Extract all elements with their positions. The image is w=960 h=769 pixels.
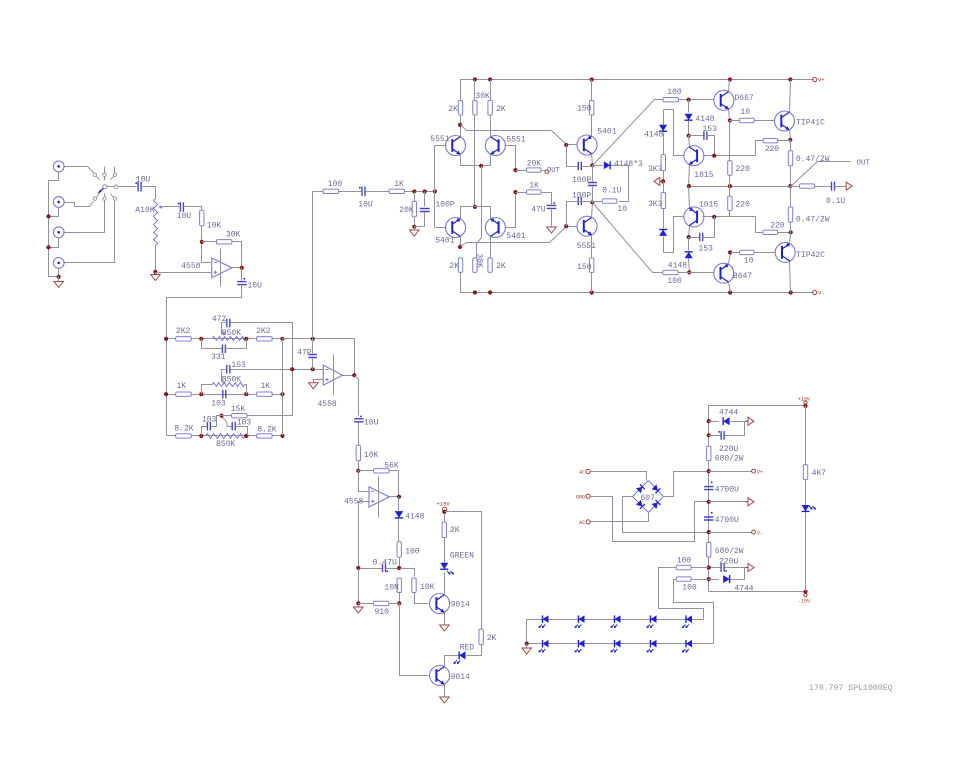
wire C3 to EQ bus bbox=[167, 285, 242, 436]
svg-text:RED: RED bbox=[460, 643, 475, 652]
svg-text:4148: 4148 bbox=[405, 513, 424, 522]
wire 20K to ground bbox=[414, 217, 416, 227]
wire 10N to 910 row bbox=[399, 593, 401, 604]
transistor Q9 1015 bbox=[684, 207, 704, 227]
wire left column to 910 bbox=[358, 569, 360, 604]
junction 30K-emitters2 bbox=[473, 205, 477, 209]
wire EQ row2 bbox=[167, 394, 283, 396]
terminal V- bottom bbox=[813, 290, 817, 294]
wire Q8 emitter down bbox=[689, 165, 690, 187]
junction 910 left bbox=[356, 601, 360, 605]
junction wiper W3 bbox=[219, 414, 223, 418]
junction V- node bbox=[707, 530, 711, 534]
junction 153-busR2 bbox=[290, 367, 294, 371]
svg-text:30K: 30K bbox=[226, 231, 241, 240]
resistor R26 150 bbox=[591, 80, 593, 101]
resistor R30 150 bottom bbox=[591, 273, 593, 293]
wire Q7 emitter to 10 bbox=[729, 110, 730, 121]
svg-text:220: 220 bbox=[770, 222, 785, 231]
left bias column link top bbox=[664, 110, 684, 156]
ground input network bbox=[414, 227, 416, 231]
LED D23 row2 bbox=[651, 640, 657, 648]
wire 10 to node2 bbox=[593, 201, 603, 203]
VR2 wiper arrow bbox=[222, 381, 225, 384]
wire node2 diagonal to bottom 100 bbox=[593, 203, 663, 273]
svg-text:0.1U: 0.1U bbox=[602, 187, 621, 196]
junction +15V bbox=[803, 404, 807, 408]
input jack J3 bbox=[53, 227, 64, 238]
diode D4 4148 bottom bias bbox=[688, 238, 690, 251]
junction row2 node C bbox=[280, 392, 284, 396]
transistor Q1 5551 bbox=[446, 136, 466, 156]
wire 30K to output bbox=[233, 242, 242, 268]
svg-text:OUT: OUT bbox=[547, 167, 560, 175]
wire Q11 emitter up bbox=[729, 253, 731, 265]
wire PSU bottom rail bbox=[709, 591, 806, 593]
svg-text:10: 10 bbox=[744, 257, 754, 266]
wire amp output row bbox=[689, 186, 791, 188]
svg-text:5551: 5551 bbox=[577, 242, 596, 251]
resistor R27 2K bottom bbox=[458, 258, 462, 273]
capacitor C13 10N bbox=[397, 578, 401, 593]
capacitor C32 4700U bottom bbox=[704, 517, 714, 520]
junction col 220U row bottom bbox=[707, 565, 711, 569]
wire PSU column bbox=[708, 406, 710, 592]
svg-text:-15V: -15V bbox=[798, 598, 810, 604]
resistor R38 220 mid upper bbox=[729, 121, 731, 161]
ground arrow 220U bottom bbox=[745, 567, 747, 569]
svg-text:5401: 5401 bbox=[597, 128, 616, 137]
svg-text:10U: 10U bbox=[358, 200, 373, 209]
wire C20 to 1K bbox=[366, 191, 389, 193]
transistor Q5 5401 mirrored bbox=[485, 218, 505, 238]
wire EQ-out bus up to power amp bbox=[312, 192, 314, 339]
svg-text:10K: 10K bbox=[364, 451, 379, 460]
wire TIP41C collector to rail bbox=[790, 80, 791, 113]
resistor R5 2K2 right bbox=[257, 337, 273, 341]
junction 910 right bbox=[397, 601, 401, 605]
bias column bottom 4148 bbox=[663, 209, 665, 229]
svg-text:150: 150 bbox=[577, 263, 592, 272]
wire Q1/Q2 emitters bbox=[461, 155, 491, 166]
svg-text:2K: 2K bbox=[496, 262, 506, 271]
svg-text:220: 220 bbox=[765, 145, 780, 154]
bridge diode bottom-right bbox=[652, 500, 661, 509]
junction 0.47U left bbox=[356, 566, 360, 570]
svg-text:V+: V+ bbox=[818, 77, 825, 84]
wire Q1 collector bbox=[460, 115, 462, 137]
svg-text:680/2W: 680/2W bbox=[715, 547, 744, 556]
svg-text:A10K: A10K bbox=[135, 206, 154, 215]
ground 910 row bbox=[358, 604, 360, 607]
wire 4744 to node bbox=[731, 421, 745, 423]
selector SW1 contact stubs toward pivot bbox=[97, 177, 100, 180]
junction input-100P bbox=[423, 189, 427, 193]
resistor R22 20K input bbox=[414, 192, 416, 202]
junction row2 left bus bbox=[164, 392, 168, 396]
bridge rectifier 607 bbox=[633, 481, 664, 513]
ground U1B + input bbox=[314, 380, 324, 383]
wire C2 to R2 10K bbox=[184, 207, 202, 211]
capacitor C28 153 bottom bbox=[689, 237, 700, 239]
capacitor C22 47U bbox=[542, 193, 552, 205]
junction Q11-10row bbox=[728, 250, 732, 254]
junction -15V bbox=[803, 590, 807, 594]
wire Q12 collector to GREEN LED bbox=[444, 573, 446, 595]
wire input node to Q1 base bbox=[434, 146, 436, 228]
wire jack3 stem bbox=[49, 238, 59, 248]
transistor Q3 5401 VAS bbox=[577, 135, 597, 155]
capacitor C10 47P bbox=[312, 339, 314, 354]
svg-text:GREEN: GREEN bbox=[450, 551, 474, 560]
wire node1 diagonal to top 100 bbox=[593, 100, 663, 166]
svg-text:153: 153 bbox=[703, 125, 718, 134]
svg-text:AC: AC bbox=[579, 520, 585, 526]
junction col 4744 row bottom bbox=[707, 577, 711, 581]
junction row3 node B bbox=[244, 434, 248, 438]
wire 10K to node bbox=[358, 461, 360, 471]
wire 4148 to Q11 base row bbox=[689, 259, 690, 273]
wire 472 to bus R2 bbox=[231, 323, 293, 416]
junction col diode row bbox=[707, 419, 711, 423]
svg-text:103: 103 bbox=[237, 419, 252, 428]
diode D2 4148*3 bbox=[593, 165, 603, 167]
capacitor C30 220U top bbox=[709, 435, 721, 437]
svg-text:910: 910 bbox=[375, 608, 390, 617]
potentiometer VR3 B50K band3 bbox=[206, 434, 246, 439]
svg-text:10U: 10U bbox=[364, 418, 379, 427]
junction railB 2K bbox=[488, 290, 492, 294]
capacitor C31 4700U top bbox=[704, 487, 714, 490]
wire Q13 base bbox=[400, 604, 429, 676]
wire RED LED to Q13 collector bbox=[445, 656, 459, 667]
svg-text:4700U: 4700U bbox=[715, 516, 739, 525]
svg-text:100: 100 bbox=[682, 583, 697, 592]
resistor R41 220 lower bbox=[756, 217, 763, 233]
svg-text:8.2K: 8.2K bbox=[257, 426, 276, 435]
wire 100 to Q7 base bbox=[679, 99, 714, 101]
wire U2A output bbox=[390, 496, 399, 498]
svg-text:9014: 9014 bbox=[451, 673, 470, 682]
selector switch SW1 contacts bottom bbox=[93, 197, 96, 200]
selector SW1 output contact bbox=[115, 185, 118, 188]
wire TIP42C collector down bbox=[790, 262, 791, 293]
svg-text:100: 100 bbox=[405, 548, 420, 557]
junction row2 node B bbox=[244, 392, 248, 396]
capacitor C26 153 top bbox=[689, 135, 704, 137]
terminal +15V psu bbox=[804, 401, 807, 404]
svg-text:100P: 100P bbox=[436, 201, 455, 210]
transistor Q13 9014 bbox=[430, 665, 450, 685]
wire to output node bbox=[790, 166, 792, 187]
svg-text:5401: 5401 bbox=[435, 236, 454, 245]
wire EQ out to amp input bbox=[313, 191, 323, 193]
svg-text:9014: 9014 bbox=[451, 601, 470, 610]
wire 10K to inverting node bbox=[202, 226, 212, 263]
svg-text:4744: 4744 bbox=[719, 409, 738, 418]
resistor R4 2K2 left bbox=[176, 337, 192, 341]
junction Q9 collector bbox=[687, 235, 691, 239]
wire jack2 to selector bbox=[65, 202, 94, 207]
terminal V+ top bbox=[813, 77, 817, 81]
wire bridge+ to V+ node bbox=[664, 472, 709, 497]
resistor R21 1K bbox=[389, 189, 405, 193]
wire Q4 tap to Q6 base bbox=[461, 227, 578, 247]
capacitor C6 103 in row bbox=[223, 390, 226, 399]
diode D1 4148 bbox=[398, 497, 400, 511]
resistor R8 8.2K left bbox=[176, 434, 192, 438]
resistor R13 100 bbox=[398, 519, 400, 542]
svg-text:2K2: 2K2 bbox=[176, 327, 191, 336]
wire Q8 base right bbox=[703, 155, 756, 157]
transistor Q8 1815 bbox=[684, 146, 704, 166]
resistor R36 220 upper bbox=[756, 141, 763, 156]
svg-text:TIP41C: TIP41C bbox=[796, 119, 825, 128]
resistor R24 30K bbox=[474, 80, 476, 101]
resistor R31 20K feedback bbox=[516, 170, 527, 172]
svg-text:AC: AC bbox=[579, 470, 585, 476]
svg-text:4K7: 4K7 bbox=[812, 469, 827, 478]
svg-text:5401: 5401 bbox=[506, 232, 525, 241]
capacitor C7 153 bbox=[227, 365, 230, 374]
ground arrow mid rail bbox=[709, 501, 747, 503]
LED D10 row1 bbox=[543, 615, 549, 623]
resistor R35 10 bbox=[730, 120, 740, 122]
svg-text:30K: 30K bbox=[475, 254, 484, 269]
junction row1 left bus bbox=[164, 337, 168, 341]
wire LED array left link bbox=[526, 620, 528, 644]
svg-text:10U: 10U bbox=[248, 282, 263, 291]
wire +15V to 2K red branch bbox=[445, 512, 482, 630]
junction TIP41C emitter bbox=[788, 138, 792, 142]
diode D3 4148 top bias bbox=[688, 100, 690, 113]
bridge diode bottom-left bbox=[636, 500, 645, 509]
capacitor C23 100P col bbox=[592, 166, 594, 182]
svg-text:20K: 20K bbox=[399, 206, 414, 215]
wire wiper to C2 bbox=[163, 206, 180, 208]
junction node2 bbox=[590, 200, 594, 204]
svg-text:D667: D667 bbox=[735, 94, 754, 103]
wire VR2 wiper to 153 bbox=[222, 370, 226, 382]
svg-text:680/2W: 680/2W bbox=[715, 455, 744, 464]
wire Q9 collector down bbox=[689, 227, 690, 238]
svg-text:15K: 15K bbox=[231, 405, 246, 414]
junction output node bbox=[788, 184, 792, 188]
wire AC2 to bridge bbox=[591, 513, 649, 522]
wire 10 to TIP41C base bbox=[755, 120, 775, 122]
svg-text:4148: 4148 bbox=[644, 131, 663, 140]
LED D20 row2 bbox=[543, 640, 549, 648]
junction railB 150 bbox=[590, 290, 594, 294]
terminal arrow output bbox=[846, 182, 852, 190]
svg-text:3K3: 3K3 bbox=[648, 200, 663, 209]
resistor R33 10 bbox=[602, 199, 617, 203]
wire Q8 collector up bbox=[689, 136, 690, 147]
wire jack3 to selector bbox=[65, 201, 105, 233]
wire 100b to LED row2 bbox=[674, 580, 714, 644]
selector SW1 rotor arm bbox=[98, 188, 103, 193]
svg-text:10: 10 bbox=[617, 205, 627, 214]
LED D21 row2 bbox=[579, 640, 585, 648]
wire jack1 to selector bbox=[65, 167, 94, 173]
wire V- terminal bbox=[709, 532, 752, 534]
svg-text:5551: 5551 bbox=[506, 136, 525, 145]
resistor R29 2K bottom right bbox=[488, 258, 492, 273]
wire GREEN to 2K bbox=[444, 538, 446, 563]
svg-text:1815: 1815 bbox=[694, 171, 713, 180]
resistor R43 100 bottom bbox=[663, 270, 679, 274]
wire Q6 collector to node2 bbox=[592, 203, 593, 218]
LED D12 row1 bbox=[615, 615, 621, 623]
svg-text:100: 100 bbox=[667, 277, 682, 286]
resistor R3 30K feedback bbox=[202, 241, 217, 243]
resistor R6 1K left bbox=[176, 392, 192, 396]
svg-text:2K: 2K bbox=[449, 262, 459, 271]
resistor R39 220 mid lower bbox=[729, 187, 731, 197]
wire 100a to LED row1 bbox=[659, 568, 704, 620]
junction bias top bbox=[687, 98, 691, 102]
ground Q13 emitter bbox=[444, 685, 446, 697]
svg-text:607: 607 bbox=[641, 494, 656, 503]
junction rail TIP41C bbox=[788, 77, 792, 81]
capacitor C20 10U bbox=[362, 187, 365, 197]
terminal +15V bbox=[443, 507, 447, 511]
capacitor C9 103 right bbox=[227, 426, 233, 428]
svg-text:331: 331 bbox=[211, 353, 226, 362]
svg-text:B50K: B50K bbox=[216, 440, 235, 449]
LED power indicator bbox=[802, 505, 810, 511]
wire diff tail link bbox=[477, 166, 482, 258]
LED D24 row2 bbox=[686, 640, 692, 648]
junction node1 bbox=[590, 163, 594, 167]
wire TIP42C emitter up bbox=[790, 233, 791, 244]
resistor R10 8.2K right bbox=[257, 434, 273, 438]
wire 10 to TIP42C base bbox=[755, 252, 776, 254]
wire EQ row3 bbox=[167, 435, 283, 437]
svg-text:1015: 1015 bbox=[699, 201, 718, 210]
wire 10K to Q12 base bbox=[415, 593, 429, 604]
capacitor C25 100P lower bbox=[567, 202, 583, 227]
svg-text:8.2K: 8.2K bbox=[174, 425, 193, 434]
junction Q8 base-153 bbox=[712, 154, 716, 158]
svg-text:2K2: 2K2 bbox=[256, 327, 271, 336]
junction rail Q7 bbox=[728, 77, 732, 81]
wire U1A output bbox=[232, 267, 242, 269]
svg-text:47P: 47P bbox=[297, 349, 312, 358]
svg-text:1K: 1K bbox=[177, 382, 187, 391]
junction U2A out bbox=[397, 495, 401, 499]
wire EQ row1 bbox=[167, 338, 283, 340]
wire C11 to detector bbox=[358, 423, 360, 446]
VR3 wiper bbox=[222, 416, 228, 426]
wire U1B output bbox=[343, 375, 355, 377]
junction 56K node bbox=[356, 469, 360, 473]
svg-text:0.47/2W: 0.47/2W bbox=[796, 216, 830, 225]
resistor R25 2K bbox=[490, 80, 492, 101]
svg-text:100: 100 bbox=[328, 180, 343, 189]
wire 30K column bbox=[474, 115, 476, 207]
junction row1 node B bbox=[244, 337, 248, 341]
junction row3 node A bbox=[199, 434, 203, 438]
resistor R7 1K right bbox=[257, 392, 273, 396]
selector SW1 NC stubs bbox=[104, 167, 106, 173]
svg-text:20K: 20K bbox=[527, 160, 542, 169]
capacitor C24 100P upper bbox=[567, 145, 578, 167]
wire Q3 emitter to 150 bbox=[591, 115, 593, 137]
resistor R16 2K bbox=[442, 522, 446, 538]
junction 20K gnd bbox=[412, 225, 416, 229]
left bias column link bottom bbox=[664, 217, 684, 253]
resistor R51 100 b bbox=[692, 579, 709, 581]
wire 100 to Q11 base bbox=[679, 272, 714, 274]
transistor Q14 TIP42C bbox=[775, 242, 795, 262]
transistor Q10 TIP41C bbox=[775, 111, 795, 131]
wire A10K bottom to ground node bbox=[155, 246, 157, 273]
resistor R20 100 bbox=[323, 189, 339, 193]
LED D13 row1 bbox=[651, 615, 657, 623]
capacitor C4 472 bbox=[227, 319, 230, 328]
op-amp U1B power line bbox=[333, 355, 335, 395]
svg-text:4558: 4558 bbox=[181, 262, 200, 271]
svg-text:103: 103 bbox=[211, 399, 226, 408]
transistor Q12 9014 bbox=[430, 594, 450, 614]
wire Q9 emitter up bbox=[689, 187, 690, 208]
junction outrow Q8 bbox=[687, 184, 691, 188]
junction Q7-10 bbox=[728, 118, 732, 122]
diode D6 4744 bottom bbox=[709, 579, 719, 581]
svg-text:V-: V- bbox=[757, 531, 763, 537]
svg-text:GND: GND bbox=[576, 494, 585, 500]
LED D11 row1 bbox=[579, 615, 585, 623]
svg-text:2K: 2K bbox=[450, 526, 460, 535]
bridge diode top-left bbox=[636, 484, 645, 493]
wire 15K to bus R2 bbox=[248, 415, 293, 417]
diode D5 4744 top bbox=[709, 421, 719, 423]
junction A10K-ground bbox=[153, 270, 157, 274]
junction 0.47U right bbox=[397, 566, 401, 570]
svg-text:+15V: +15V bbox=[437, 501, 451, 508]
bridge diode top-right bbox=[652, 484, 661, 493]
svg-text:4148: 4148 bbox=[695, 115, 714, 124]
svg-text:10N: 10N bbox=[384, 583, 399, 592]
zobel capacitor C27 0.1U bbox=[815, 186, 832, 188]
capacitor C12 0.47U bbox=[359, 568, 383, 570]
wire V+ terminal bbox=[709, 471, 752, 473]
junction 153-EQout bus bbox=[311, 367, 315, 371]
junction rail 30K bbox=[473, 77, 477, 81]
svg-text:V+: V+ bbox=[757, 470, 763, 476]
svg-text:220: 220 bbox=[736, 165, 751, 174]
transistor Q6 5551 VAS bbox=[577, 216, 597, 236]
svg-text:5551: 5551 bbox=[430, 135, 449, 144]
resistor R44 10 bottom bbox=[731, 252, 740, 254]
wire Q2 base bbox=[505, 146, 516, 171]
junction row1 node A bbox=[199, 337, 203, 341]
LED RED bbox=[459, 651, 465, 659]
resistor R32 1K bbox=[516, 192, 527, 194]
junction row1 EQ-out bus bbox=[311, 337, 315, 341]
junction bias mid bbox=[661, 179, 665, 183]
svg-text:100P: 100P bbox=[572, 176, 591, 185]
terminal -15V psu bbox=[804, 594, 807, 597]
wire 100 to 0.47U row bbox=[399, 558, 401, 569]
svg-text:100: 100 bbox=[677, 557, 692, 566]
wire 2K to +15V node bbox=[444, 512, 446, 523]
junction bus-jack2 bbox=[46, 214, 50, 218]
wire AC1 to bridge bbox=[591, 472, 647, 481]
op-amp U1A 4558 bbox=[212, 258, 232, 278]
junction bus-jack3 bbox=[46, 245, 50, 249]
